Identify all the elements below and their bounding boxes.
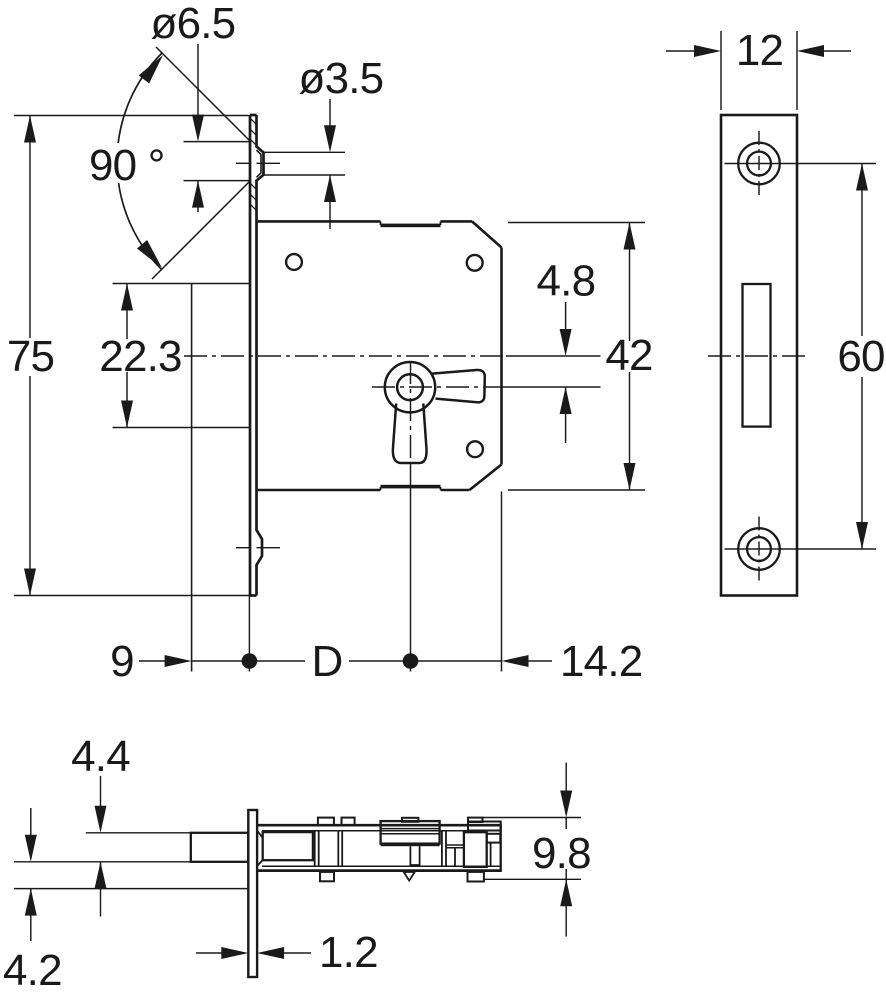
svg-text:4.2: 4.2 — [3, 946, 62, 995]
svg-text:4.8: 4.8 — [537, 257, 596, 306]
svg-text:14.2: 14.2 — [560, 637, 642, 686]
svg-text:12: 12 — [736, 26, 783, 75]
svg-text:D: D — [312, 637, 343, 686]
svg-text:9.8: 9.8 — [532, 829, 591, 878]
svg-text:42: 42 — [605, 331, 652, 380]
svg-text:22.3: 22.3 — [99, 332, 181, 381]
svg-text:60: 60 — [837, 332, 884, 381]
svg-text:1.2: 1.2 — [319, 928, 378, 977]
svg-text:ø6.5: ø6.5 — [151, 0, 236, 48]
svg-text:75: 75 — [7, 332, 54, 381]
svg-text:9: 9 — [110, 637, 134, 686]
svg-text:90 °: 90 ° — [89, 141, 165, 190]
svg-text:ø3.5: ø3.5 — [299, 54, 384, 103]
svg-text:4.4: 4.4 — [71, 732, 130, 781]
